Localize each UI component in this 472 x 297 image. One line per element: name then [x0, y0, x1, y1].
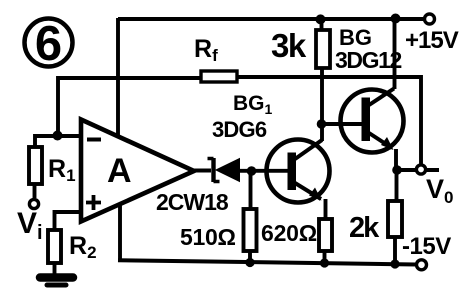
node emitter junction	[392, 165, 402, 175]
wire minus input to R1	[35, 136, 80, 148]
wire op-amp output to zener	[192, 169, 211, 173]
label minus sign	[87, 138, 101, 142]
resistor 3k	[316, 30, 330, 68]
svg-text:-15V: -15V	[402, 233, 451, 260]
wire plus input to R2	[55, 212, 81, 231]
wire Vo to 2k resistor	[395, 170, 399, 202]
svg-text:6: 6	[35, 17, 62, 71]
wire op-amp positive supply pin	[116, 18, 120, 136]
svg-text:3DG6: 3DG6	[212, 117, 267, 142]
node BG2 collector rail junction	[391, 14, 401, 24]
svg-text:+15V: +15V	[405, 27, 459, 54]
svg-text:2k: 2k	[349, 212, 380, 244]
resistor R2	[48, 230, 61, 263]
svg-text:2CW18: 2CW18	[156, 189, 229, 215]
figure number 6 circle	[25, 17, 73, 71]
wire op-amp negative supply pin	[118, 205, 122, 260]
wire R2 to ground	[53, 263, 57, 275]
transistor Q1 BG1 3DG6	[267, 140, 330, 203]
node 2k rail junction	[390, 259, 399, 268]
node minus-input junction	[53, 131, 63, 141]
wire BG2 collector to top rail	[393, 19, 397, 89]
node zener output junction	[247, 166, 257, 176]
node BG1 collector junction	[317, 119, 327, 129]
op-amp A	[81, 120, 194, 222]
svg-text:A: A	[107, 152, 132, 190]
resistor Rf	[201, 71, 237, 82]
resistor R1	[29, 147, 42, 184]
node 3k top rail junction	[316, 14, 326, 24]
wire BG1 emitter to 620 ohm	[324, 199, 328, 220]
wire 510 ohm to bottom rail	[248, 251, 252, 263]
wire BG1 collector up	[320, 124, 324, 141]
wire 3k from top rail	[320, 19, 324, 31]
svg-text:620Ω: 620Ω	[261, 220, 317, 246]
transistor Q2 BG 3DG12	[341, 89, 404, 153]
wire Vo node horizontal	[397, 168, 439, 172]
ground	[40, 278, 73, 286]
wire 620 ohm to bottom rail	[323, 251, 327, 263]
wire base node to BG2 base	[322, 122, 364, 126]
wire feedback line Rf	[58, 77, 421, 164]
resistor 510 ohm	[244, 209, 257, 251]
wire BG2 emitter down to Vo node	[394, 149, 398, 170]
wire 2k to bottom rail	[393, 237, 397, 264]
label plus sign	[86, 195, 101, 210]
resistor 2k	[388, 201, 402, 237]
svg-text:510Ω: 510Ω	[180, 224, 236, 250]
svg-text:3k: 3k	[271, 27, 307, 64]
node 620 ohm rail junction	[320, 258, 329, 267]
diode D1 zener 2CW18	[208, 158, 240, 182]
node 510 ohm rail junction	[245, 258, 254, 267]
wire zener to BG1 base	[239, 169, 289, 173]
wire bottom -15V rail	[118, 260, 416, 264]
resistor 620 ohm	[319, 219, 332, 251]
wire 3k to BG1 collector node	[320, 68, 324, 124]
wire R1 to Vi terminal	[33, 184, 37, 198]
terminal -15V	[417, 260, 427, 270]
terminal Vo	[416, 165, 425, 174]
wire junction to 510 ohm resistor	[249, 171, 253, 210]
terminal +15V	[425, 14, 435, 24]
svg-text:3DG12: 3DG12	[335, 47, 401, 73]
terminal Vi	[29, 199, 38, 208]
wire top +15V rail	[118, 17, 425, 21]
